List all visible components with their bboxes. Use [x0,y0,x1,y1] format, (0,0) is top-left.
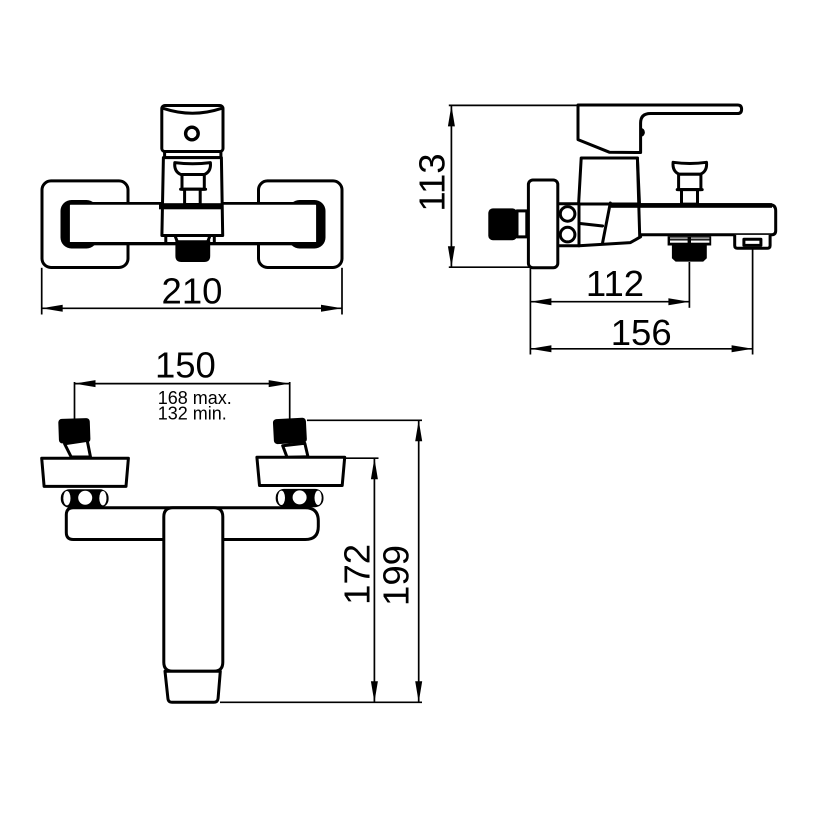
handle cap dome line [164,108,222,113]
handle nub [640,128,645,137]
spout outlet [735,235,770,248]
neck [165,152,221,158]
diverter skirt (front) [182,175,204,190]
199 top extension line [307,419,422,421]
dim 199 line [418,420,420,702]
right connector stem [283,443,308,457]
left flange (plan) [42,458,129,486]
svg-text:112: 112 [586,263,644,304]
spout body (side) [611,205,776,235]
left connection nut (black) [61,200,98,249]
svg-text:150: 150 [155,345,216,386]
svg-text:113: 113 [412,153,453,211]
right wall flange [259,181,343,268]
wall connector (black) [488,208,517,240]
112 extension line [688,262,690,308]
113 top extension line [449,104,578,106]
svg-text:199: 199 [375,545,416,606]
shower outlet block (striped) [668,236,712,245]
bar top thick segment across body [159,203,223,209]
spout outlet inner rect [744,239,761,245]
wall extension line [529,268,531,354]
diverter knob (side): skirt bottom line [677,188,702,191]
svg-text:156: 156 [611,312,672,353]
body front [162,158,223,236]
spout top thick line [611,203,772,208]
escutcheon top [579,158,640,204]
aerator (black) [175,240,210,262]
172 top extension line [345,457,379,459]
handle screw hole [186,127,199,140]
spout base verticals [164,236,167,244]
dim 150 line [75,383,290,385]
left wall flange [42,181,128,268]
dim 112 line [530,301,689,303]
left valve band [61,489,109,507]
spout shoulder slants [175,236,178,244]
dim 172 line [373,458,375,702]
diverter cap (front) [175,163,211,175]
diverter stem (front) [185,189,201,204]
dim 113 line [450,105,452,267]
connector collar [517,211,527,237]
right valve band [276,489,324,507]
113 bottom extension line [449,266,531,268]
body bar [69,203,318,243]
150 left extension line [74,382,76,422]
handle cap [162,106,223,152]
check valve circles [560,207,575,222]
body bar (plan) [66,508,318,540]
handle lever (side) [578,105,742,153]
left connector stem [65,440,91,457]
svg-text:132 min.: 132 min. [158,404,227,424]
body divider line [579,223,603,226]
diverter knob (side): stem [682,190,698,205]
dim 210 line [42,307,342,309]
right connection nut (black) [289,200,326,249]
spout tip (plan) [165,671,220,702]
svg-text:172: 172 [336,544,377,605]
body diagonal [603,203,611,243]
156 extension line [752,249,754,355]
dim 156 line [530,348,752,350]
left pipe connector (black) [58,418,90,444]
body bottom lines [579,237,641,246]
right flange (plan) [257,457,345,485]
dim 210 extension lines [41,268,43,315]
diverter skirt bottom line [181,188,206,191]
check valve box [556,204,579,246]
bottom extension line [220,701,422,703]
svg-text:210: 210 [162,271,223,312]
diverter knob (side): cap [673,162,707,174]
diverter knob (side): skirt [679,174,701,189]
bar bottom line across [67,242,318,245]
column right edge [637,158,639,236]
right pipe connector (black) [273,418,307,445]
wall flange (side) [528,180,557,268]
shower outlet nut (black) [672,245,707,261]
spout block (plan) [164,508,223,672]
150 right extension line [289,382,291,422]
